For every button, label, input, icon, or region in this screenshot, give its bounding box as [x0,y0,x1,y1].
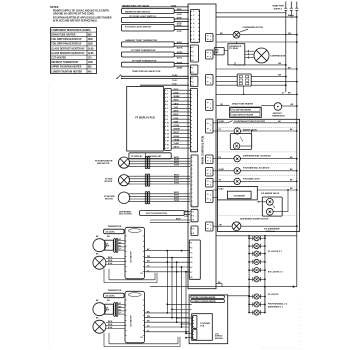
svg-text:NOTES:: NOTES: [50,6,59,9]
svg-text:8: 8 [191,277,192,279]
svg-text:7: 7 [167,112,168,114]
svg-text:12: 12 [167,130,169,132]
svg-text:3: 3 [192,85,193,87]
svg-text:PROFESSIONAL X 2: PROFESSIONAL X 2 [268,303,288,306]
svg-text:GLASS DEFROST HEATER 60°: GLASS DEFROST HEATER 60° [51,47,85,50]
svg-text:GN/YL: GN/YL [174,147,180,149]
svg-text:2: 2 [193,216,194,218]
svg-text:3: 3 [167,97,168,99]
svg-text:2: 2 [193,233,194,235]
svg-text:2: 2 [192,72,193,74]
svg-text:DISPENSER BAIL SOLENOID: DISPENSER BAIL SOLENOID [243,155,271,158]
svg-text:RD/W: RD/W [108,324,113,326]
svg-text:UPPER FOUNTAIN HEATER: UPPER FOUNTAIN HEATER [192,296,216,299]
svg-text:1: 1 [210,225,211,227]
svg-text:FOIL DRIP PAN HEATER 50°: FOIL DRIP PAN HEATER 50° [51,43,82,46]
svg-text:BU/PK: BU/PK [177,62,183,64]
svg-text:2: 2 [210,174,211,176]
svg-text:5: 5 [191,262,192,264]
svg-text:DEFROST THERMOSTAT: DEFROST THERMOSTAT [51,61,79,64]
svg-text:BK/W: BK/W [108,257,113,259]
svg-text:FOUNTAIN HEATERS (IF APPLICABL: FOUNTAIN HEATERS (IF APPLICABLE) ARE FOA… [53,17,112,20]
svg-text:6: 6 [193,31,194,33]
svg-text:FOIL DRIP PAN HEATER: FOIL DRIP PAN HEATER [232,109,252,112]
svg-text:7: 7 [191,272,192,274]
svg-text:GLASS DEFROST HEATER 50°: GLASS DEFROST HEATER 50° [51,52,85,55]
svg-text:BU/W: BU/W [108,327,113,329]
svg-text:OR/BK: OR/BK [174,139,180,141]
svg-text:2: 2 [210,82,211,84]
svg-text:OR/W: OR/W [174,103,179,105]
svg-text:2: 2 [192,51,193,53]
svg-text:DISPENSER AUGER MOTOR: DISPENSER AUGER MOTOR [240,217,269,220]
svg-text:BK/W: BK/W [174,114,179,116]
svg-text:SUPPLY: SUPPLY [274,8,283,10]
svg-text:PK/W: PK/W [177,9,182,11]
svg-text:MOTOR: MOTOR [105,181,113,183]
svg-text:FAN MOTOR: FAN MOTOR [97,162,110,165]
svg-text:2: 2 [193,15,194,17]
svg-text:YL/BU: YL/BU [219,121,225,123]
svg-text:MODULE: MODULE [266,231,275,233]
svg-text:2: 2 [210,200,211,202]
svg-text:BU/GY: BU/GY [174,132,180,134]
svg-text:BU/RD: BU/RD [177,52,183,54]
svg-text:PU/W: PU/W [174,118,179,120]
svg-text:16: 16 [167,144,169,146]
svg-text:MAIN CONTROL PCB: MAIN CONTROL PCB [201,136,205,164]
svg-text:11: 11 [167,126,169,128]
svg-text:GY/W: GY/W [174,182,179,184]
svg-text:GY/W: GY/W [174,165,179,167]
svg-text:15: 15 [167,141,169,143]
svg-text:ICE MAKER: ICE MAKER [130,315,133,327]
svg-text:P3: P3 [141,273,143,275]
svg-text:7: 7 [193,35,194,37]
svg-text:YL/GY: YL/GY [172,80,178,82]
svg-text:GY/BU: GY/BU [174,125,180,127]
svg-text:BU/R: BU/R [176,219,181,221]
svg-text:1: 1 [191,243,192,245]
svg-text:POWER SUPPLY OF 115VAC AND 60C: POWER SUPPLY OF 115VAC AND 60CYCLE EARTH [53,10,109,13]
svg-text:FZ DOOR LIGHT SWITCH: FZ DOOR LIGHT SWITCH [125,26,152,28]
svg-text:THERMISTOR: THERMISTOR [108,226,122,228]
svg-text:GY/W: GY/W [177,14,182,16]
svg-text:TN/W: TN/W [174,121,179,123]
svg-text:BU/OR: BU/OR [177,48,183,50]
svg-text:GLASS DEFROST HEATER: GLASS DEFROST HEATER [232,114,254,117]
svg-text:FZ LIGHTS: FZ LIGHTS [268,294,279,296]
svg-text:BU/BK: BU/BK [177,68,183,70]
svg-text:2: 2 [210,130,211,132]
svg-text:YL/BK: YL/BK [219,169,225,171]
svg-text:FOUNTAIN LIGHT: FOUNTAIN LIGHT [243,177,261,180]
svg-text:TEMP DISPLAY SELECTOR: TEMP DISPLAY SELECTOR [132,70,161,73]
svg-text:IN PLACE AND ARE NOT SERVICEAB: IN PLACE AND ARE NOT SERVICEABLE. [53,19,98,22]
svg-text:YL/R: YL/R [184,210,189,212]
svg-text:COMPRESSOR: COMPRESSOR [270,55,286,57]
svg-text:MOTOR: MOTOR [105,198,113,200]
svg-text:19.36: 19.36 [88,53,94,55]
svg-text:RD/BK: RD/BK [174,136,180,138]
svg-text:LOWER FOUNTAIN HEATER: LOWER FOUNTAIN HEATER [192,300,216,303]
svg-text:DISPENSER X 1: DISPENSER X 1 [268,307,284,309]
svg-text:1: 1 [210,195,211,197]
svg-text:2: 2 [210,229,211,231]
svg-text:1: 1 [210,124,211,126]
svg-text:YL/W: YL/W [172,84,177,86]
svg-text:3: 3 [191,252,192,254]
svg-text:1: 1 [210,78,211,80]
svg-text:THERMISTOR: THERMISTOR [108,290,122,292]
svg-text:BU/W: BU/W [108,263,113,265]
svg-text:1: 1 [193,228,194,230]
svg-text:2: 2 [191,247,192,249]
svg-text:10: 10 [167,123,169,125]
svg-text:P3: P3 [141,337,143,339]
svg-text:WH/OR: WH/OR [174,129,181,131]
svg-text:FF DISPLAY: FF DISPLAY [131,155,143,158]
svg-text:WATER FILTER SWITCH: WATER FILTER SWITCH [125,10,150,13]
svg-text:PCB: PCB [200,326,205,328]
svg-text:UPPER FOUNTAIN HEATER: UPPER FOUNTAIN HEATER [51,66,81,69]
svg-text:YL/BK: YL/BK [174,143,180,145]
svg-text:DRAIN TUBE HEATER: DRAIN TUBE HEATER [51,34,75,37]
svg-text:1000: 1000 [88,62,94,64]
svg-text:MAIN PWR: MAIN PWR [273,5,285,8]
svg-text:2: 2 [192,81,193,83]
svg-text:1850: 1850 [88,39,94,41]
svg-text:2: 2 [210,39,211,41]
svg-text:3: 3 [192,56,193,58]
svg-text:FF LIGHTS X 3: FF LIGHTS X 3 [268,251,283,253]
svg-text:ICE MAKER: ICE MAKER [130,251,133,263]
svg-text:GY/R: GY/R [184,216,189,218]
svg-text:YL/BU: YL/BU [218,188,224,190]
svg-text:YL/BK: YL/BK [172,75,178,77]
svg-text:1: 1 [192,47,193,49]
svg-text:1: 1 [210,53,211,55]
svg-text:COMPONENT RESISTANCE (OHMS): COMPONENT RESISTANCE (OHMS) [51,29,90,32]
svg-text:ICE LEVEL: ICE LEVEL [106,296,116,298]
svg-text:1: 1 [167,90,168,92]
svg-text:BU/W: BU/W [177,18,182,20]
svg-text:BU/YL: BU/YL [177,58,183,60]
svg-text:3: 3 [193,19,194,21]
svg-text:1: 1 [210,170,211,172]
svg-text:6: 6 [167,108,168,110]
svg-text:WH/BK: WH/BK [174,96,181,98]
svg-text:CCT HEATER: CCT HEATER [51,57,66,60]
svg-text:1: 1 [192,78,193,80]
svg-text:3: 3 [193,220,194,222]
svg-text:FOIL DRIP PAN HEATER 60°: FOIL DRIP PAN HEATER 60° [51,38,82,41]
svg-text:RD/W: RD/W [174,100,179,102]
svg-text:5: 5 [193,27,194,29]
svg-text:BU/W: BU/W [177,25,182,27]
svg-text:BU/W: BU/W [174,89,179,91]
svg-text:9: 9 [167,119,168,121]
svg-text:13: 13 [167,133,169,135]
svg-text:DRAIN TUBE HEATER: DRAIN TUBE HEATER [232,103,254,106]
svg-text:FF DISPLAY PCB: FF DISPLAY PCB [135,117,155,120]
svg-text:YL/RD: YL/RD [171,5,177,7]
svg-text:1: 1 [192,67,193,69]
svg-text:BN/W: BN/W [174,111,179,113]
svg-text:GY/W: GY/W [177,31,182,33]
svg-text:1: 1 [193,11,194,13]
svg-text:1: 1 [210,103,211,105]
svg-text:1: 1 [210,36,211,38]
svg-text:6: 6 [191,267,192,269]
svg-text:DUCT DOOR MOTOR: DUCT DOOR MOTOR [146,213,167,215]
svg-text:2: 2 [210,57,211,59]
svg-text:2: 2 [210,185,211,187]
svg-text:5: 5 [167,104,168,106]
svg-text:ICE MAKER VALVE: ICE MAKER VALVE [261,192,280,195]
svg-text:YL/W: YL/W [174,107,179,109]
svg-text:1: 1 [210,158,211,160]
svg-text:CONDENSER MOTOR: CONDENSER MOTOR [242,27,263,29]
svg-text:2: 2 [210,161,211,163]
svg-text:RD/W: RD/W [108,260,113,262]
svg-text:GROUND VIA 3RD PIN OF THE CORD: GROUND VIA 3RD PIN OF THE CORD. [53,12,95,15]
svg-text:BU/GY: BU/GY [177,42,183,44]
svg-text:DUCT DOOR: DUCT DOOR [119,214,132,216]
svg-text:PTC RELAY: PTC RELAY [229,47,239,50]
svg-text:ICE LEVEL: ICE LEVEL [106,232,116,234]
svg-text:LOWER FOUNTAIN HEATER: LOWER FOUNTAIN HEATER [51,70,82,73]
svg-text:1: 1 [210,181,211,183]
svg-text:FOUNTAIN: FOUNTAIN [200,322,210,325]
svg-text:MODULE: MODULE [215,338,224,340]
svg-text:8: 8 [167,115,168,117]
svg-text:ICE MAKER: ICE MAKER [234,195,246,198]
svg-text:GY/W: GY/W [174,92,179,94]
svg-text:17: 17 [167,148,169,150]
svg-text:1925: 1925 [88,44,94,46]
svg-text:FOUNTAIN BAIL SOLENOID: FOUNTAIN BAIL SOLENOID [243,166,270,169]
svg-text:THERMOSTAT: THERMOSTAT [272,114,286,117]
svg-text:8: 8 [193,39,194,41]
svg-text:2: 2 [210,108,211,110]
svg-text:GY/W: GY/W [174,200,179,202]
svg-text:KIT LIGHTS X 3: KIT LIGHTS X 3 [268,272,284,274]
svg-text:BK/W: BK/W [108,321,113,323]
svg-text:1: 1 [193,211,194,213]
svg-text:19.36: 19.36 [88,48,94,50]
svg-text:2: 2 [167,94,168,96]
